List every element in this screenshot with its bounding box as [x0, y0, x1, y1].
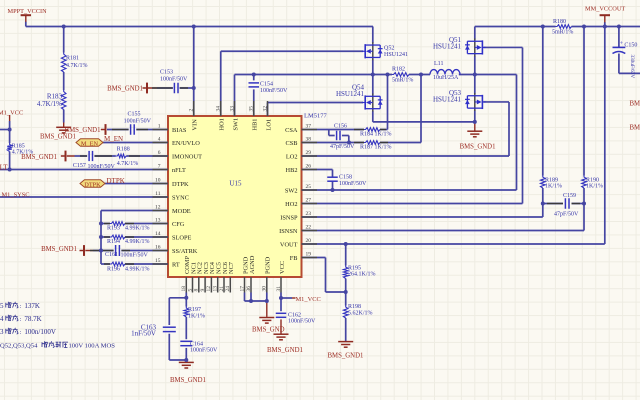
svg-text:M_EN: M_EN [81, 140, 99, 147]
svg-text:21: 21 [219, 286, 225, 292]
svg-text:34: 34 [216, 106, 222, 112]
svg-text:NC7: NC7 [228, 262, 235, 274]
svg-text:U15: U15 [229, 179, 242, 187]
svg-text:C157: C157 [73, 163, 86, 169]
svg-text:R181: R181 [66, 55, 79, 61]
svg-text:26: 26 [306, 164, 312, 170]
svg-text:3: 3 [0, 328, 4, 336]
svg-text:PGND: PGND [265, 256, 272, 274]
svg-text:12: 12 [206, 286, 212, 292]
svg-text:100nF/50V: 100nF/50V [121, 253, 149, 259]
svg-text:L11: L11 [434, 61, 443, 67]
svg-text:10: 10 [155, 178, 161, 184]
svg-text:1nF/50V: 1nF/50V [131, 330, 156, 338]
svg-text:CFG: CFG [172, 221, 185, 228]
svg-text:RT: RT [172, 262, 180, 269]
svg-text:R190: R190 [586, 177, 599, 183]
svg-text:4: 4 [0, 315, 4, 323]
svg-text:BIAS: BIAS [172, 127, 187, 134]
svg-text:BMS_GND1: BMS_GND1 [41, 246, 77, 253]
svg-text:R180: R180 [553, 19, 566, 25]
svg-text:29: 29 [306, 150, 312, 156]
svg-text:CSA: CSA [285, 127, 298, 134]
svg-text:R194: R194 [107, 239, 120, 245]
svg-text:100nF/50V: 100nF/50V [88, 164, 116, 170]
svg-text:18: 18 [181, 286, 187, 292]
svg-text:BMS_GND1: BMS_GND1 [170, 377, 206, 384]
svg-text:R189: R189 [545, 177, 558, 183]
svg-text:C158: C158 [339, 174, 352, 180]
svg-text:HB2: HB2 [286, 167, 298, 174]
svg-text:5mR/1%: 5mR/1% [552, 29, 573, 35]
svg-text:47pF/50V: 47pF/50V [330, 144, 355, 150]
svg-text:C164: C164 [190, 341, 203, 347]
svg-text:R198: R198 [348, 304, 361, 310]
svg-text:100nF/50V: 100nF/50V [190, 348, 218, 354]
svg-text:SLOPE: SLOPE [172, 235, 192, 242]
svg-text:35: 35 [249, 106, 255, 112]
svg-text:R197: R197 [188, 307, 201, 313]
svg-text:137K: 137K [24, 302, 40, 310]
svg-text:HSU1241: HSU1241 [433, 96, 462, 104]
svg-text:BMS_GND1: BMS_GND1 [40, 133, 76, 140]
svg-text:MPPT_VCCIN: MPPT_VCCIN [8, 8, 48, 15]
svg-text:BMS_GND1: BMS_GND1 [630, 125, 640, 132]
svg-text:ISNSP: ISNSP [280, 215, 298, 222]
svg-text:SW2: SW2 [285, 188, 298, 195]
svg-text:CSB: CSB [286, 140, 298, 147]
svg-text:C153: C153 [160, 70, 173, 76]
svg-text:100V 100A MOS: 100V 100A MOS [69, 343, 116, 350]
svg-text:IMONOUT: IMONOUT [172, 154, 202, 161]
svg-text:C161: C161 [105, 252, 118, 258]
svg-text:5: 5 [0, 302, 4, 310]
svg-text:BMS_GND1: BMS_GND1 [21, 154, 57, 161]
svg-text:C156: C156 [334, 123, 347, 129]
svg-text:25: 25 [306, 184, 312, 190]
svg-text:23: 23 [306, 211, 312, 217]
svg-text:13: 13 [213, 286, 219, 292]
svg-text:31: 31 [276, 286, 282, 292]
svg-text:36: 36 [246, 286, 252, 292]
svg-text:nFLT: nFLT [0, 163, 8, 171]
svg-text:16: 16 [155, 245, 161, 251]
svg-text:27: 27 [306, 198, 312, 204]
svg-text:4.99K/1%: 4.99K/1% [125, 266, 150, 272]
svg-text:2: 2 [189, 109, 195, 112]
svg-text:M1_SYSC: M1_SYSC [2, 192, 30, 199]
svg-text:DTPK: DTPK [107, 177, 125, 185]
svg-text:13: 13 [155, 218, 161, 224]
svg-text:12: 12 [155, 205, 161, 211]
svg-text:20: 20 [306, 238, 312, 244]
svg-text:Q52,Q53,Q54: Q52,Q53,Q54 [0, 343, 38, 350]
svg-text:4.7K/1%: 4.7K/1% [117, 161, 139, 167]
svg-text:SW1: SW1 [232, 118, 239, 131]
svg-text:BMS_GND1: BMS_GND1 [328, 353, 364, 360]
svg-text:MODE: MODE [172, 208, 191, 215]
svg-text:R182: R182 [392, 66, 405, 72]
svg-text:DTPK: DTPK [84, 181, 101, 188]
svg-text:LM5177: LM5177 [304, 112, 328, 119]
svg-text:C154: C154 [260, 81, 273, 87]
svg-text:+: + [620, 41, 624, 47]
svg-text:MM_VCCOUT: MM_VCCOUT [585, 6, 625, 13]
svg-text:22: 22 [306, 225, 312, 231]
svg-text:BMS_GND1: BMS_GND1 [267, 347, 303, 354]
svg-text:BMS_GND1: BMS_GND1 [107, 85, 143, 92]
svg-text:11: 11 [155, 191, 161, 197]
svg-text:100nF/50V: 100nF/50V [260, 88, 288, 94]
svg-text:R187 1K/1%: R187 1K/1% [360, 144, 392, 150]
svg-text:100nF/50V: 100nF/50V [160, 77, 188, 83]
svg-text:ISNSN: ISNSN [279, 228, 298, 235]
svg-text:BMS_GND1: BMS_GND1 [460, 143, 496, 150]
svg-text:100n/100V: 100n/100V [24, 328, 56, 336]
svg-text:VOUT: VOUT [280, 242, 298, 249]
svg-text:1K/1%: 1K/1% [545, 184, 562, 190]
svg-text:nFLT: nFLT [172, 167, 186, 174]
svg-text:4.7K/1%: 4.7K/1% [66, 63, 88, 69]
svg-text:100nF/50V: 100nF/50V [339, 181, 367, 187]
svg-text:78.7K: 78.7K [24, 315, 41, 323]
svg-text:HSU1241: HSU1241 [384, 52, 408, 58]
svg-text:HSU1241: HSU1241 [433, 43, 462, 51]
svg-text:C155: C155 [128, 112, 141, 118]
svg-text:LO1: LO1 [265, 119, 272, 131]
svg-text:4.7K/1%: 4.7K/1% [37, 100, 62, 108]
svg-text:HB1: HB1 [252, 119, 259, 131]
svg-text:33: 33 [229, 106, 235, 112]
svg-text:HO1: HO1 [219, 118, 226, 130]
svg-text:100nF/50V: 100nF/50V [124, 118, 152, 124]
svg-text:R193: R193 [107, 225, 120, 231]
svg-text:FB: FB [290, 255, 298, 262]
svg-text:30: 30 [262, 286, 268, 292]
svg-text:5.62K/1%: 5.62K/1% [348, 311, 373, 317]
svg-text:19: 19 [306, 252, 312, 258]
svg-text:47pF/50V: 47pF/50V [554, 211, 579, 217]
svg-text:BMS_GND1: BMS_GND1 [630, 101, 640, 108]
svg-text:5mR/1%: 5mR/1% [392, 78, 413, 84]
svg-text::: : [20, 329, 22, 336]
svg-text:24: 24 [225, 286, 231, 292]
svg-text:264.1K/1%: 264.1K/1% [348, 272, 376, 278]
svg-text:HSU1241: HSU1241 [336, 90, 365, 98]
svg-text:R184 1K/1%: R184 1K/1% [360, 132, 392, 138]
svg-text:VIN: VIN [192, 119, 199, 131]
svg-text:17: 17 [239, 286, 245, 292]
svg-text:330uF/63V: 330uF/63V [629, 55, 635, 79]
svg-text:AGND: AGND [249, 255, 256, 274]
svg-text:M1_VCC: M1_VCC [0, 109, 23, 116]
svg-text:SS/ATRK: SS/ATRK [172, 248, 198, 255]
svg-text:6: 6 [158, 150, 161, 156]
svg-text:EN/UVLO: EN/UVLO [172, 140, 200, 147]
svg-text:4.99K/1%: 4.99K/1% [125, 239, 150, 245]
svg-text:7: 7 [158, 164, 161, 170]
svg-text:SYNC: SYNC [172, 195, 189, 202]
svg-text::: : [20, 303, 22, 310]
svg-text:C150: C150 [624, 42, 637, 48]
svg-text:1K/1%: 1K/1% [586, 184, 603, 190]
svg-text::: : [20, 316, 22, 323]
svg-text:C159: C159 [563, 193, 576, 199]
svg-text:C162: C162 [288, 312, 301, 318]
svg-text:HO2: HO2 [285, 201, 297, 208]
svg-text:DTPK: DTPK [172, 181, 189, 188]
svg-text:VCC: VCC [279, 261, 286, 274]
svg-text:8: 8 [194, 289, 200, 292]
svg-text:5: 5 [187, 289, 193, 292]
svg-text:M1_VCC: M1_VCC [296, 296, 321, 303]
svg-text:Q52: Q52 [384, 45, 394, 51]
svg-text:BMS_GND: BMS_GND [252, 327, 285, 334]
svg-text:15: 15 [155, 258, 161, 264]
svg-text:14: 14 [155, 231, 161, 237]
svg-text:1: 1 [158, 124, 161, 130]
svg-text:M_EN: M_EN [104, 135, 123, 143]
svg-text:4.99K/1%: 4.99K/1% [125, 225, 150, 231]
svg-text:R196: R196 [107, 266, 120, 272]
svg-text:R195: R195 [348, 265, 361, 271]
svg-text:R188: R188 [117, 146, 130, 152]
svg-text:38: 38 [306, 137, 312, 143]
svg-text:4: 4 [158, 137, 161, 143]
svg-text:37: 37 [306, 124, 312, 130]
svg-text:9: 9 [200, 289, 206, 292]
svg-text:10uH/25A: 10uH/25A [433, 75, 459, 81]
svg-text:LO2: LO2 [286, 154, 298, 161]
svg-text:100nF/50V: 100nF/50V [288, 319, 316, 325]
svg-text:32: 32 [262, 106, 268, 112]
svg-text:1K/1%: 1K/1% [188, 313, 205, 319]
